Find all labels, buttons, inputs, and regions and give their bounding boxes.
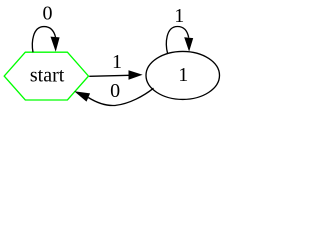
arrowhead 1->start <box>74 91 90 101</box>
edge 1->1 self loop <box>166 27 188 54</box>
svg-text:0: 0 <box>42 2 52 24</box>
edge start->1 <box>89 75 129 76</box>
edge 1->start <box>88 88 153 105</box>
svg-text:1: 1 <box>112 51 122 73</box>
svg-text:1: 1 <box>174 5 184 27</box>
arrowhead start loop <box>51 37 60 52</box>
svg-text:1: 1 <box>178 64 188 86</box>
edge start->start self loop <box>32 27 55 53</box>
arrowhead start->1 <box>129 70 143 79</box>
node 1 (ellipse) <box>146 51 220 99</box>
arrowhead 1 loop <box>184 37 193 51</box>
node start (green hexagon) <box>4 52 88 100</box>
svg-text:0: 0 <box>110 80 120 102</box>
svg-text:start: start <box>30 65 65 87</box>
